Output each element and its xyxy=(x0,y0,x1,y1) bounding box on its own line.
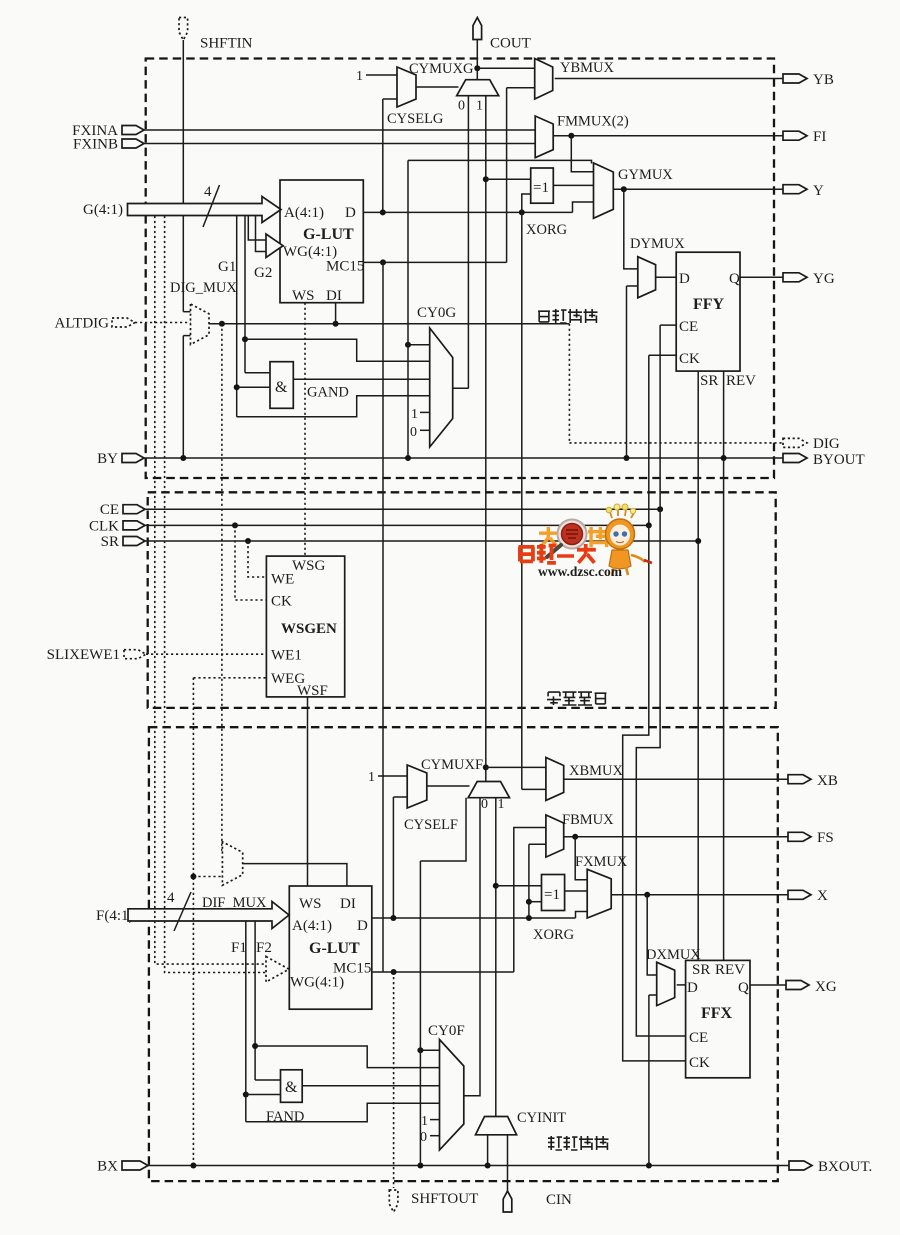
svg-text:FMMUX(2): FMMUX(2) xyxy=(557,114,629,130)
svg-text:FS: FS xyxy=(817,830,834,846)
wire GAND output to CY0G input3 xyxy=(293,378,429,380)
wire DIG dotted riser and DIG output xyxy=(568,324,570,443)
svg-text:CYSELF: CYSELF xyxy=(404,817,458,833)
bus F(4:1) 4-bit xyxy=(128,902,289,929)
svg-text:CIN: CIN xyxy=(546,1192,572,1208)
wire FMMUX output to GYMUX top input xyxy=(571,136,593,172)
wire CY0F const 0 stub xyxy=(430,1135,440,1137)
junction FS / FXMUX feed xyxy=(572,834,578,840)
junction BX riser / DIF_MUX input xyxy=(190,874,196,880)
wire CLK rail xyxy=(145,524,649,526)
svg-text:0: 0 xyxy=(410,425,417,440)
junction D / FB riser xyxy=(526,915,532,921)
junction BY / DIG_MUX riser xyxy=(180,455,186,461)
wire F1 drop xyxy=(245,921,247,1122)
svg-text:MC15: MC15 xyxy=(326,259,364,275)
wire SHFTOUT dotted riser xyxy=(393,972,395,1188)
pin COUT xyxy=(473,18,482,40)
svg-text:WE1: WE1 xyxy=(271,648,302,664)
wire D to CYSELG riser xyxy=(382,99,384,212)
svg-text:DIG_MUX: DIG_MUX xyxy=(170,280,237,296)
wire F D to CYSELF riser xyxy=(392,797,394,918)
mux CYSELG xyxy=(397,67,416,107)
wire DIF_MUX output to F-LUT DI xyxy=(243,864,347,886)
wire CIN riser to CYINIT xyxy=(507,1135,509,1192)
junction BX rail / riser xyxy=(417,1163,423,1169)
junction BY / DYMUX xyxy=(624,455,630,461)
wire into CYSELF xyxy=(393,796,407,798)
svg-text:WSGEN: WSGEN xyxy=(281,621,337,637)
wire X output xyxy=(611,894,788,896)
mux FXMUX xyxy=(587,869,611,918)
wire BX to CY0F input1 xyxy=(420,1049,439,1051)
svg-text:BY: BY xyxy=(97,451,118,467)
svg-text:WS: WS xyxy=(292,288,315,304)
wire CK riser xyxy=(648,355,650,525)
mux CYMUXF (carry dome) xyxy=(468,782,509,798)
mux CY0F xyxy=(440,1040,464,1151)
svg-text:BYOUT: BYOUT xyxy=(813,452,865,468)
wire const 1 to CYSELF xyxy=(378,775,407,777)
svg-text:BX: BX xyxy=(97,1159,118,1175)
bus G(4:1) 4-bit xyxy=(128,197,282,223)
wire YB output xyxy=(555,78,783,80)
pin YB xyxy=(783,74,807,83)
wire CK dotted feed xyxy=(235,525,266,600)
wire D-G riser into XBMUX bottom input xyxy=(522,788,546,790)
pin BYOUT xyxy=(783,454,807,463)
arrow WG(4:1) dotted head xyxy=(266,957,289,983)
pin SHFTOUT (dotted) xyxy=(389,1190,398,1212)
wire SHFTIN riser xyxy=(182,40,184,312)
svg-text:REV: REV xyxy=(715,962,745,978)
wire BY to DYMUX bottom input riser xyxy=(626,286,628,458)
wire into DXMUX xyxy=(649,994,657,996)
junction CLK / WSGEN CK xyxy=(232,522,238,528)
svg-text:CLK: CLK xyxy=(89,518,119,534)
wire BX to BXOUT rail xyxy=(148,1165,789,1167)
wire BY to CY0G input1 xyxy=(408,344,430,346)
pin SR xyxy=(123,537,145,546)
pin XG xyxy=(786,981,809,990)
pin Y xyxy=(783,185,807,194)
svg-text:GYMUX: GYMUX xyxy=(618,167,673,183)
wire G2 to GAND input A xyxy=(245,372,270,374)
wire WSG dotted from G-LUT WS down to WSGEN xyxy=(304,303,306,556)
wire D to =1 XORG bottom input xyxy=(522,194,531,212)
wire BX dotted riser (WEG / DIF_MUX) xyxy=(192,678,194,1166)
gate =1 XORG xyxy=(531,168,554,203)
svg-text:XORG: XORG xyxy=(526,222,568,238)
junction CE rail xyxy=(657,506,663,512)
junction DIG_MUX output / ALTDIG chain xyxy=(219,321,225,327)
svg-text:SHFTOUT: SHFTOUT xyxy=(411,1191,478,1207)
svg-text:XORG: XORG xyxy=(533,927,575,943)
wire FS to FXMUX top input xyxy=(575,837,587,880)
wire G2 drop xyxy=(244,216,246,373)
mux CYINIT (dome) xyxy=(476,1117,517,1135)
wire WG arrow tail lower xyxy=(256,216,267,252)
mux FBMUX xyxy=(546,815,564,857)
mux CY0G xyxy=(430,328,453,447)
svg-text:FXMUX: FXMUX xyxy=(575,854,628,870)
svg-text:CK: CK xyxy=(271,594,292,610)
junction G2 branch xyxy=(242,336,248,342)
mux CYSELF xyxy=(407,765,427,808)
wire DIG_MUX output rail xyxy=(209,323,569,325)
svg-text:REV: REV xyxy=(726,373,756,389)
svg-text:D: D xyxy=(345,205,356,221)
mux GYMUX xyxy=(594,163,614,218)
junction carry / XORG input xyxy=(483,176,489,182)
wire DYMUX output to FFY D xyxy=(656,276,677,278)
svg-text:www.dzsc.com: www.dzsc.com xyxy=(538,564,623,579)
mux DXMUX xyxy=(657,962,675,1005)
svg-text:A(4:1): A(4:1) xyxy=(292,918,332,934)
wire into DYMUX xyxy=(627,285,638,287)
wire Y output xyxy=(613,188,783,190)
wire FS output xyxy=(564,836,788,838)
wire dotted chain G bus to WG(4:1) of F-LUT : left line xyxy=(155,216,266,964)
wire into DIG_MUX xyxy=(183,335,190,337)
wire const 1 to CYSELG xyxy=(366,74,397,76)
pin BY xyxy=(122,454,144,463)
pin CLK xyxy=(123,521,145,530)
junction D / CYSELG riser xyxy=(380,209,386,215)
svg-text:WSG: WSG xyxy=(292,558,326,574)
junction CLK rail xyxy=(646,522,652,528)
svg-text:0: 0 xyxy=(481,797,488,812)
svg-text:GAND: GAND xyxy=(307,385,349,401)
wire MC15 riser to YBMUX xyxy=(506,88,508,263)
wire =1 XORG output to GYMUX xyxy=(553,184,593,186)
wire into CYSELG xyxy=(383,98,397,100)
pin FS xyxy=(788,832,811,841)
svg-text:D: D xyxy=(357,918,368,934)
junction FI / GYMUX feed xyxy=(568,133,574,139)
wire FI output xyxy=(553,135,783,137)
svg-text:G-LUT: G-LUT xyxy=(309,940,360,957)
wire D to FXMUX bottom input xyxy=(576,912,588,919)
label 公用逻辑 common logic xyxy=(547,692,606,705)
svg-text:SR: SR xyxy=(101,534,119,550)
watermark dzsc.com logo xyxy=(518,504,652,579)
pin X xyxy=(788,890,811,899)
label 顶部模块 top module xyxy=(538,309,597,323)
svg-text:Q: Q xyxy=(729,271,740,287)
wire G1 to CY0G input4 xyxy=(237,396,430,417)
wire FXINB to FMMUX xyxy=(144,143,535,145)
arrow WG(4:1) head xyxy=(266,234,283,258)
gate =1 XORF xyxy=(542,875,565,911)
junction XORG xyxy=(519,209,525,215)
wire CY0F const 1 stub xyxy=(430,1119,440,1121)
svg-text:WS: WS xyxy=(299,896,322,912)
svg-text:CYSELG: CYSELG xyxy=(387,111,444,127)
pin XB xyxy=(788,775,811,784)
svg-text:SLIXEWE1: SLIXEWE1 xyxy=(47,647,120,663)
svg-text:CY0F: CY0F xyxy=(428,1023,465,1039)
wire DI stub of G-LUT xyxy=(335,303,337,324)
junction BX rail / CYINIT xyxy=(485,1163,491,1169)
wire WSF from WSGEN to F-LUT WS xyxy=(307,697,309,886)
svg-text:1: 1 xyxy=(498,797,505,812)
svg-text:CYINIT: CYINIT xyxy=(517,1110,566,1126)
mux DIF_MUX (dotted) xyxy=(222,842,242,886)
gate FAND (&) xyxy=(281,1070,303,1103)
wire Y feedback to DYMUX xyxy=(624,189,638,269)
wire CY0G const 1 stub xyxy=(420,411,430,413)
junction carry F / XBMUX feed xyxy=(483,764,489,770)
wire into FBMUX xyxy=(529,843,546,845)
svg-text:CY0G: CY0G xyxy=(417,305,456,321)
wire SR rail xyxy=(145,540,698,542)
wire G-LUT D output rail xyxy=(363,211,572,213)
junction Y / DYMUX feedback xyxy=(621,186,627,192)
svg-text:DIF_MUX: DIF_MUX xyxy=(202,895,267,911)
wire G2 to CY0G input2 xyxy=(245,339,430,361)
svg-text:1: 1 xyxy=(476,99,483,114)
wire F1 to CY0F input4 xyxy=(246,1103,440,1122)
wire BX dotted to DIF_MUX bottom input xyxy=(193,876,222,878)
wire F2 to CY0F input2 xyxy=(255,1046,439,1068)
svg-text:CK: CK xyxy=(679,351,700,367)
junction D / CYSELF riser xyxy=(390,915,396,921)
svg-text:SR: SR xyxy=(700,373,718,389)
wire SLIXEWE1 dotted to WSGEN WE1 xyxy=(146,653,266,655)
svg-text:&: & xyxy=(275,379,288,396)
flip-flop FFX xyxy=(686,960,750,1077)
wire REV line FFY to FFX xyxy=(723,371,725,960)
svg-text:DIG: DIG xyxy=(813,436,840,452)
svg-text:YBMUX: YBMUX xyxy=(560,60,615,76)
wire BX into CYINIT xyxy=(487,1135,489,1166)
bus width slash F xyxy=(174,892,191,931)
bottom module dashed box 底部模块 xyxy=(149,727,778,1181)
wire FAND output to CY0F input3 xyxy=(302,1085,439,1087)
wire F2 to FAND input A xyxy=(255,1079,280,1081)
wire to =1 XORF top input xyxy=(496,885,542,887)
wire BY riser to GYMUX select xyxy=(407,160,409,458)
junction BY rail xyxy=(405,455,411,461)
junction G1 branch xyxy=(234,384,240,390)
wire carry to XBMUX top input xyxy=(486,766,546,768)
junction SR rail xyxy=(695,538,701,544)
pin BXOUT xyxy=(789,1161,812,1170)
wire WE dotted feed xyxy=(248,541,266,577)
wire BX to DXMUX bottom input riser xyxy=(648,995,650,1166)
svg-text:FFX: FFX xyxy=(701,1005,733,1022)
wire MC15 F output rail xyxy=(372,971,514,973)
svg-text:YB: YB xyxy=(813,72,834,88)
junction BX riser / CY0F in1 xyxy=(417,1047,423,1053)
pin FXINB xyxy=(122,139,144,148)
flip-flop FFY xyxy=(676,252,740,371)
wire DIG_MUX output dotted chain down to DIF_MUX xyxy=(221,324,224,852)
wire ALTDIG dotted into DIG_MUX xyxy=(135,322,191,324)
junction DI xyxy=(333,321,339,327)
wire BX select to CYMUXF corner xyxy=(420,798,466,861)
wire BY riser to DIG_MUX bottom input xyxy=(182,336,184,458)
wire D riser to FBMUX bottom input xyxy=(528,844,530,918)
svg-text:CYMUXG: CYMUXG xyxy=(409,61,474,77)
gate GAND (&) xyxy=(270,362,293,409)
junction COUT / YBMUX feed xyxy=(474,65,480,71)
wire CE riser xyxy=(659,325,661,509)
wire MC15 output rail xyxy=(363,261,506,263)
pin BX xyxy=(122,1161,148,1170)
svg-text:FBMUX: FBMUX xyxy=(562,812,614,828)
wire CE into FFY xyxy=(660,324,676,326)
mux CYMUXG (carry dome) xyxy=(457,80,499,96)
wire CYSELG output to CYMUXG xyxy=(416,86,459,88)
wire MC15 F riser to FBMUX top input xyxy=(514,828,546,973)
svg-text:WE: WE xyxy=(271,572,294,588)
svg-text:X: X xyxy=(817,888,828,904)
svg-text:XBMUX: XBMUX xyxy=(569,763,624,779)
wire MC15 into YBMUX bottom input xyxy=(507,87,535,89)
component F-LUT (G-LUT) xyxy=(289,886,372,1009)
svg-text:XB: XB xyxy=(817,773,838,789)
label 底部模块 bottom module xyxy=(548,1136,609,1150)
svg-text:WG(4:1): WG(4:1) xyxy=(290,975,344,991)
wire WG arrow tail upper xyxy=(248,216,266,241)
wire D riser down to XBMUX xyxy=(521,212,523,789)
wire FXINA to FMMUX xyxy=(144,129,535,131)
wire SR line FFY to FFX xyxy=(697,371,699,960)
wire CY0G const 0 stub xyxy=(420,429,430,431)
pin FXINA xyxy=(122,126,144,135)
wire CK into FFY xyxy=(649,354,676,356)
junction F1 branch xyxy=(243,1092,249,1098)
wire D to GYMUX bottom input xyxy=(573,202,594,212)
svg-text:F2: F2 xyxy=(256,940,272,956)
svg-text:CE: CE xyxy=(100,502,119,518)
svg-text:SR: SR xyxy=(692,962,710,978)
wire dotted chain right line xyxy=(165,216,266,973)
mux XBMUX xyxy=(546,758,564,801)
junction XORF bottom feed xyxy=(526,899,532,905)
wire F1 to FAND input B xyxy=(246,1094,281,1096)
wire BX riser to CYMUXF select xyxy=(419,861,421,1166)
wire G1 drop xyxy=(236,216,238,417)
svg-text:FXINB: FXINB xyxy=(73,137,118,153)
junction carry init / XORF input xyxy=(493,883,499,889)
wire carry chain riser CYMUXF to CYMUXG 1-input xyxy=(485,96,487,783)
svg-text:1: 1 xyxy=(356,69,363,84)
wire D to =1 XORF bottom input xyxy=(529,901,542,903)
svg-text:Q: Q xyxy=(738,980,749,996)
svg-text:CK: CK xyxy=(689,1055,710,1071)
pin CIN xyxy=(503,1191,512,1212)
pin SLIXEWE1 (dotted) xyxy=(124,650,146,659)
svg-text:CE: CE xyxy=(689,1030,708,1046)
svg-text:ALTDIG: ALTDIG xyxy=(55,316,110,332)
wire =1 XORF output to FXMUX xyxy=(565,890,588,892)
svg-text:G1: G1 xyxy=(218,259,236,275)
svg-text:FI: FI xyxy=(813,129,826,145)
junction SR / WSGEN WE xyxy=(245,538,251,544)
svg-text:FAND: FAND xyxy=(266,1109,304,1125)
svg-text:DI: DI xyxy=(326,288,342,304)
wire carry to YBMUX top input xyxy=(477,67,534,69)
wire carry to =1 XORG top input xyxy=(486,178,531,180)
mux DIG_MUX (dotted) xyxy=(191,304,210,345)
junction BY riser / CY0G in1 xyxy=(405,342,411,348)
svg-text:BXOUT.: BXOUT. xyxy=(818,1159,872,1175)
svg-text:4: 4 xyxy=(204,184,212,200)
svg-text:CYMUXF: CYMUXF xyxy=(421,757,483,773)
wire CYINIT output riser to CYMUXF 1 input xyxy=(495,798,497,1117)
svg-text:1: 1 xyxy=(368,770,375,785)
junction MC15 / shift riser xyxy=(380,259,386,265)
pin DIG (dotted) xyxy=(783,438,807,447)
svg-text:D: D xyxy=(687,980,698,996)
junction X / DXMUX feedback xyxy=(644,892,650,898)
pin YG xyxy=(783,273,807,282)
svg-text:A(4:1): A(4:1) xyxy=(284,205,324,221)
wire BY select to GYMUX top corner xyxy=(408,160,592,163)
wire G1 to GAND input B xyxy=(237,386,270,388)
svg-text:1: 1 xyxy=(421,1114,428,1129)
svg-text:YG: YG xyxy=(813,271,835,287)
wire FFX Q to XG xyxy=(750,984,786,986)
wire F-LUT D output rail xyxy=(372,917,576,919)
component G-LUT (top) xyxy=(280,180,363,303)
wire CLK rail to FFX CK xyxy=(623,525,686,1061)
mux DYMUX xyxy=(638,257,656,298)
svg-text:WSF: WSF xyxy=(297,683,328,699)
svg-text:G-LUT: G-LUT xyxy=(303,226,354,243)
bus width slash xyxy=(203,185,220,227)
junction BX rail / riser xyxy=(190,1163,196,1169)
pin ALTDIG (dotted) xyxy=(112,318,135,327)
svg-text:SHFTIN: SHFTIN xyxy=(200,36,253,52)
pin SHFTIN (dotted) xyxy=(179,18,188,41)
wire X feedback to DXMUX xyxy=(647,895,657,975)
common logic dashed box 公用逻辑 xyxy=(148,492,776,708)
wire SHFTIN into DIG_MUX top input xyxy=(183,311,190,313)
wire CY0F output riser to CYMUXF 0 input xyxy=(464,798,480,1096)
junction BY / REV xyxy=(721,455,727,461)
wire CYSELF output to CYMUXF xyxy=(427,785,470,787)
wire CE rail to FFX CE xyxy=(636,509,685,1036)
component WSGEN xyxy=(266,556,344,697)
junction MC15 F / SHFTOUT xyxy=(391,969,397,975)
svg-text:CE: CE xyxy=(679,319,698,335)
pin CE xyxy=(123,505,145,514)
svg-text:D: D xyxy=(679,271,690,287)
svg-text:XG: XG xyxy=(815,979,837,995)
wire DXMUX output to FFX D xyxy=(677,984,686,986)
wire CY0G output riser to CYMUXG 0 input xyxy=(467,96,469,389)
svg-text:=1: =1 xyxy=(544,887,560,903)
svg-text:&: & xyxy=(285,1079,298,1096)
wire BY to BYOUT rail xyxy=(144,457,783,459)
svg-text:G2: G2 xyxy=(254,265,272,281)
junction BX / DXMUX xyxy=(646,1163,652,1169)
wire COUT from CYMUXG output xyxy=(476,40,478,80)
svg-text:Y: Y xyxy=(813,183,824,199)
wire MC15 shift riser down xyxy=(382,262,384,972)
wire CY0G output xyxy=(453,387,469,389)
wire CE rail xyxy=(145,508,660,510)
svg-text:DYMUX: DYMUX xyxy=(630,236,685,252)
top module dashed box 顶部模块 xyxy=(146,59,774,479)
mux YBMUX xyxy=(535,59,553,100)
junction F2 branch xyxy=(252,1043,258,1049)
svg-text:4: 4 xyxy=(167,890,175,906)
